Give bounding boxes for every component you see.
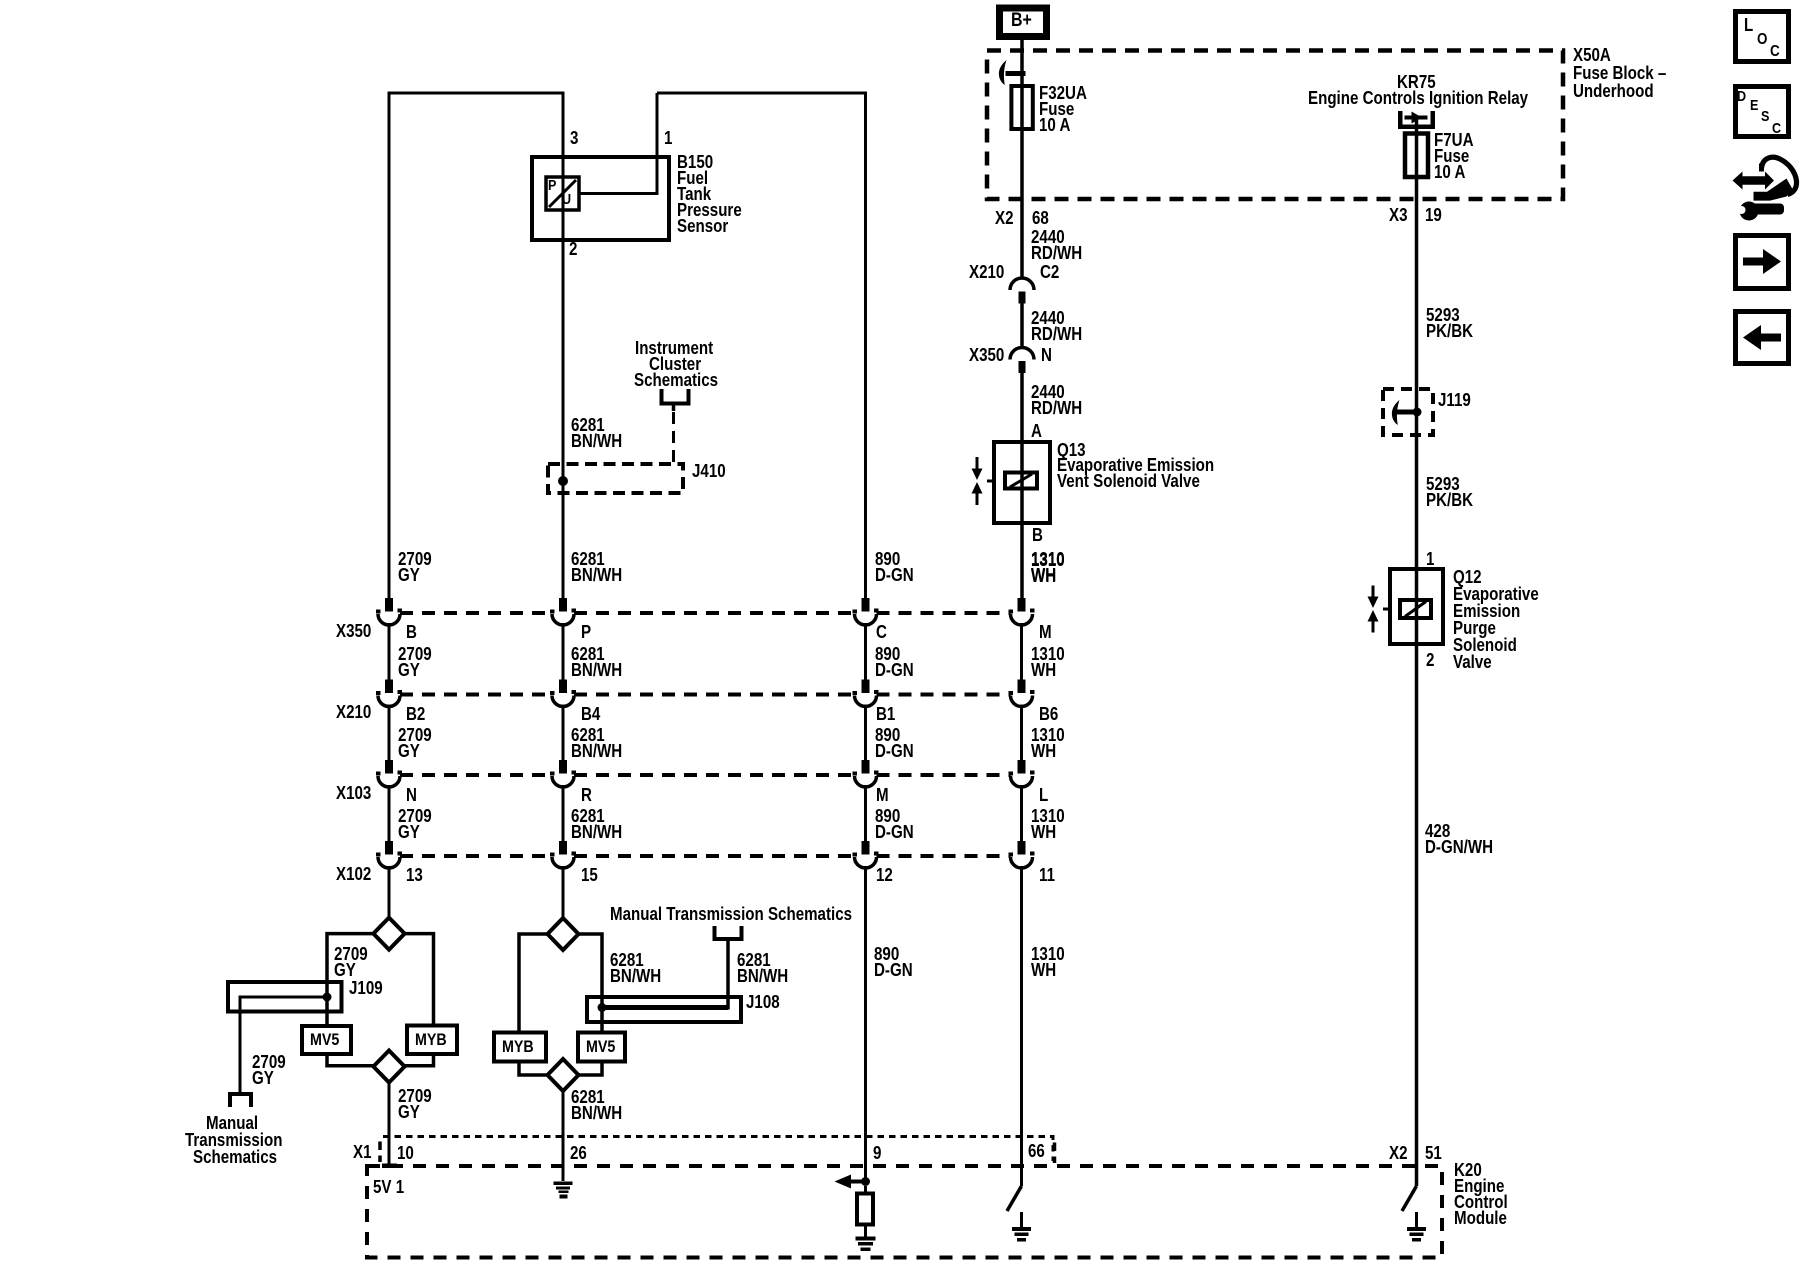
in-line connector X210 C2: [1010, 278, 1034, 290]
wire label 5293 PK/BK a: [1426, 307, 1473, 339]
wire 1310 WH column4 to ECM pin 66: [1020, 866, 1023, 1186]
wire 2709 GY column1 vertical: [388, 92, 391, 599]
internal switch at pin X2 51: [1402, 1186, 1417, 1211]
junction dot pin 9: [861, 1177, 870, 1186]
pin B label: [1032, 527, 1043, 543]
wire 890 D-GN column3 to ECM pin 9: [864, 866, 867, 1178]
connector X2 ecm label: [1389, 1145, 1408, 1161]
J119 label: [1438, 392, 1471, 408]
row connector X102 pin 12: [862, 841, 870, 855]
X350 N connector label: [969, 347, 1004, 363]
feed arrow at B+: [1006, 71, 1026, 76]
wire label 890 D-GN mid: [874, 946, 913, 978]
wire label set3: [571, 808, 622, 840]
evaporative emission purge solenoid valve Q12 box: [1390, 569, 1443, 644]
wire label 5293 PK/BK b: [1426, 476, 1473, 508]
wire label set1: [571, 646, 622, 678]
feed arrow at J119: [1395, 410, 1421, 415]
wire label 6281 BN/WH: [571, 417, 622, 449]
DESC letter E: [1750, 98, 1758, 114]
connector X3 label: [1389, 207, 1408, 223]
pin B1 label row: [876, 706, 895, 722]
LOC letter C: [1770, 44, 1780, 60]
B150 P/U transducer symbol: [546, 177, 579, 210]
pin 15 label row: [581, 867, 598, 883]
pin 1 label: [664, 130, 672, 146]
wire J109 tap 2709 GY: [240, 997, 327, 1092]
connector row X210 dashed line: [400, 693, 1011, 697]
internal resistor at pin 9: [857, 1194, 873, 1225]
DESC letter D: [1737, 89, 1746, 105]
P letter in P/U symbol: [548, 178, 556, 194]
pin P label row: [581, 624, 591, 640]
relay KR75 contact symbol: [1398, 111, 1403, 129]
wire label 1310 WH top: [1031, 552, 1065, 584]
fuel tank pressure sensor B150 box: [532, 157, 669, 240]
wire 2709 GY to ECM pin 10: [388, 1083, 391, 1165]
instrument cluster label line2: [649, 356, 701, 372]
dashed wire to J410: [672, 412, 675, 464]
wire B150 pin1 top horizontal to column3: [657, 92, 866, 95]
pin 19 label: [1425, 207, 1442, 223]
row X350 label: [336, 623, 371, 639]
row connector X210 pin B2: [385, 680, 393, 694]
pin B label row: [406, 624, 417, 640]
instrument cluster bracket: [662, 389, 689, 404]
pin 3 label: [570, 130, 578, 146]
wire 2440 RD/WH C2 to X350 N: [1020, 304, 1024, 348]
pin M label row: [1039, 624, 1052, 640]
Q13 name line1: [1057, 457, 1214, 473]
J109 label: [349, 980, 383, 996]
J410 label: [692, 463, 726, 479]
KR75 name label: [1308, 90, 1528, 106]
row connector X350 pin B: [385, 598, 393, 612]
row connector X102 pin 13: [385, 841, 393, 855]
pin 1 label Q12: [1426, 551, 1434, 567]
wire 890 D-GN column3 segment: [864, 623, 867, 680]
wire label set1: [875, 646, 914, 678]
row connector X350 pin P: [559, 598, 567, 612]
splice diamond bottom structure1: [373, 1051, 404, 1083]
LOC letter O: [1757, 32, 1767, 48]
wire 890 D-GN column3 segment: [864, 785, 867, 841]
wire label 2709 GY s1 left: [252, 1054, 286, 1086]
B+ label: [1011, 13, 1032, 29]
in-line connector X350 N: [1010, 348, 1034, 360]
X210 C2 connector label: [969, 264, 1004, 280]
wire structure2 left branch lower: [519, 1062, 548, 1076]
pin 66 label: [1028, 1143, 1045, 1159]
F7UA label: [1434, 132, 1473, 180]
Q12 valve port stub: [1383, 608, 1390, 611]
row connector X103 pin M: [862, 760, 870, 774]
wire 2440 RD/WH fuse to X210 C2: [1020, 86, 1024, 278]
row X103 label: [336, 785, 371, 801]
connector code MYB box structure1: [407, 1026, 457, 1055]
junction dot J109: [323, 993, 332, 1002]
wire structure1 right branch 2709 GY: [405, 934, 434, 1026]
pin 51 label: [1425, 1145, 1442, 1161]
B150 label: [677, 154, 742, 234]
pin 13 label row: [406, 867, 423, 883]
icon box LOC: [1736, 12, 1789, 62]
wire label set2: [1031, 727, 1065, 759]
wire label 6281 s2 right: [737, 952, 788, 984]
Q12 label: [1453, 569, 1539, 671]
icon box right arrow: [1736, 236, 1789, 289]
connector row X102 dashed line: [400, 854, 1011, 858]
instrument cluster label line3: [634, 372, 718, 388]
evaporative emission vent solenoid valve Q13 box: [994, 442, 1050, 523]
U letter in P/U symbol: [562, 192, 571, 208]
connector X2 label: [995, 210, 1014, 226]
wire 890 D-GN column3 vertical: [864, 92, 867, 599]
row connector X103 pin L: [1018, 760, 1026, 774]
wire label 2709 GY s1 top: [334, 946, 368, 978]
wire 6281 BN/WH column2 segment: [562, 705, 565, 761]
pin C2 label: [1040, 264, 1059, 280]
MYB text s2: [502, 1039, 534, 1055]
wire 1310 WH column4 segment: [1020, 705, 1023, 761]
splice J119 dashed box: [1383, 389, 1433, 435]
wire label set1: [398, 646, 432, 678]
splice pack J109 box: [228, 982, 342, 1012]
LOC letter L: [1744, 17, 1753, 33]
F32UA label: [1039, 85, 1087, 133]
manual trans label left line3: [193, 1149, 277, 1165]
ground at pin X2 51: [1415, 1212, 1418, 1227]
MYB text s1: [415, 1032, 447, 1048]
DESC letter C2: [1772, 121, 1781, 137]
DESC letter S: [1761, 109, 1769, 125]
MV5 text s2: [586, 1039, 615, 1055]
splice diamond top structure1: [373, 918, 404, 950]
manual trans label left line1: [206, 1115, 258, 1131]
pin N label: [1041, 347, 1052, 363]
pin 11 label row: [1039, 867, 1055, 883]
wire 2709 GY column1 segment: [388, 785, 391, 841]
wire 890 D-GN column3 segment: [864, 705, 867, 761]
wire label set2: [398, 727, 432, 759]
connector code MYB box structure2: [494, 1033, 546, 1062]
Q13 valve port stub: [987, 480, 994, 483]
pin B2 label row: [406, 706, 425, 722]
pin 9 label: [873, 1145, 881, 1161]
wire KR75 to fuse F7UA: [1415, 119, 1419, 134]
Q13 name line2: [1057, 473, 1200, 489]
wire 2440 RD/WH N to Q13: [1020, 373, 1024, 598]
instrument cluster label line1: [635, 340, 713, 356]
wire label set0: [398, 551, 432, 583]
terminal bar at pin 10: [382, 1164, 397, 1169]
row connector X350 pin C: [862, 598, 870, 612]
wire label set3: [398, 808, 432, 840]
wire label 2709 GY s1 bottom: [398, 1088, 432, 1120]
wire structure2 left branch 6281 BN/WH: [519, 934, 548, 1033]
fuse block underhood X50A dashed box: [987, 51, 1563, 200]
row connector X210 pin B6: [1018, 680, 1026, 694]
wire 6281 BN/WH column2 segment: [562, 623, 565, 680]
wire label 6281 s2 bottom: [571, 1089, 622, 1121]
pin R label row: [581, 787, 592, 803]
wire label set3: [875, 808, 914, 840]
row connector X210 pin B1: [862, 680, 870, 694]
wire label 428 D-GN/WH: [1425, 823, 1493, 855]
5V 1 label: [373, 1179, 404, 1195]
row X210 label: [336, 704, 371, 720]
wire label 6281 s2 left: [610, 952, 661, 984]
wire column1 X102 to splice diamond: [388, 866, 391, 918]
connector code MV5 box structure1: [302, 1026, 351, 1054]
internal switch at pin 66: [1007, 1186, 1022, 1211]
pin B4 label row: [581, 706, 600, 722]
pin 2 label Q12: [1426, 652, 1434, 668]
icon box DESC: [1736, 87, 1789, 137]
manual trans label left line2: [185, 1132, 282, 1148]
icon wrench and arrows: [1733, 157, 1797, 220]
wire label set3: [1031, 808, 1065, 840]
pin 10 label: [397, 1145, 414, 1161]
splice pack J410 dashed box: [548, 464, 683, 493]
pin M label row: [876, 787, 889, 803]
MV5 text s1: [310, 1032, 339, 1048]
wire B150 pin3 top horizontal to column1: [389, 92, 563, 95]
wire label 1310 WH mid: [1031, 946, 1065, 978]
ground at pin 9: [856, 1237, 876, 1241]
wire 6281 BN/WH to ECM pin 26 ground: [562, 1091, 565, 1181]
pin 26 label: [570, 1145, 587, 1161]
wire label set2: [571, 727, 622, 759]
row connector X103 pin R: [559, 760, 567, 774]
wire 6281 BN/WH column2 segment: [562, 785, 565, 841]
Q12 valve arrows: [1372, 586, 1375, 598]
wire 2709 GY column1 segment: [388, 705, 391, 761]
wire column2 X102 to splice diamond: [562, 866, 565, 918]
wire structure1 right branch lower: [405, 1054, 434, 1066]
Q12 solenoid coil: [1400, 600, 1431, 618]
J108 label: [746, 994, 780, 1010]
K20 label: [1454, 1162, 1508, 1226]
wire B+ feed to fuse F32UA: [1020, 40, 1024, 86]
X1 label divider dashes: [378, 1142, 382, 1163]
wire label set2: [875, 727, 914, 759]
KR75 label: [1397, 74, 1436, 90]
manual trans label right: [610, 906, 852, 922]
wire label set0: [571, 551, 622, 583]
junction dot J119: [1413, 408, 1422, 417]
wire 5293 PK/BK column5 vertical: [1415, 134, 1419, 1187]
pin A label: [1031, 423, 1042, 439]
wire label set0: [1031, 551, 1065, 583]
junction dot J108: [598, 1003, 607, 1012]
pin 68 label: [1032, 210, 1049, 226]
row connector X102 pin 11: [1018, 841, 1026, 855]
wire label set1: [1031, 646, 1065, 678]
pin C label row: [876, 624, 887, 640]
wire label 2440 RD/WH c: [1031, 384, 1082, 416]
pin B6 label row: [1039, 706, 1058, 722]
off-page bracket manual transmission right: [715, 926, 742, 939]
wire J108 tap 6281 BN/WH: [602, 1005, 728, 1010]
wire structure1 left branch lower: [327, 1054, 373, 1066]
Q13 solenoid coil: [1005, 473, 1037, 489]
wire 6281 BN/WH column2 vertical through sensor and J410: [562, 92, 565, 599]
row connector X210 pin B4: [559, 680, 567, 694]
B150 internal wire pin1 to P/U: [579, 93, 657, 194]
connector X1 label: [353, 1144, 372, 1160]
icon box left arrow: [1736, 312, 1789, 364]
fuse F7UA 10A: [1405, 134, 1428, 178]
wire 1310 WH column4 segment: [1020, 623, 1023, 680]
battery positive terminal B+: [1000, 8, 1047, 37]
wire label 2440 RD/WH a: [1031, 229, 1082, 261]
ground at pin 66: [1020, 1212, 1023, 1227]
ground at pin 26: [554, 1182, 573, 1186]
wire label set0: [875, 551, 914, 583]
pin N label row: [406, 787, 417, 803]
wire 1310 WH column4 segment: [1020, 785, 1023, 841]
Q13 label: [1057, 442, 1086, 458]
splice diamond top structure2: [548, 918, 579, 950]
splice pack J108 box: [587, 997, 741, 1022]
row connector X102 pin 15: [559, 841, 567, 855]
connector code MV5 box structure2: [578, 1033, 625, 1062]
wire 2709 GY column1 segment: [388, 623, 391, 680]
connector row X103 dashed line: [400, 773, 1011, 777]
pin 66 label divider dashes: [1053, 1143, 1057, 1164]
row X102 label: [336, 866, 371, 882]
splice diamond bottom structure2: [548, 1059, 579, 1091]
row connector X350 pin M: [1018, 598, 1026, 612]
row connector X103 pin N: [385, 760, 393, 774]
connector row X350 dashed line: [400, 611, 1011, 615]
pin L label row: [1039, 787, 1048, 803]
wire structure1 left branch 2709 GY: [327, 934, 373, 1026]
off-page bracket manual transmission left: [230, 1094, 251, 1107]
X50A label: [1573, 46, 1666, 100]
internal arrow at pin 9: [851, 1180, 866, 1184]
wire label 2440 RD/WH b: [1031, 310, 1082, 342]
fuse F32UA 10A: [1011, 86, 1032, 129]
ECM X1 connector dotted line: [383, 1137, 1053, 1162]
engine control module K20 dashed box: [367, 1166, 1442, 1258]
wire structure2 right branch 6281 BN/WH: [579, 934, 603, 1033]
junction dot J410: [558, 476, 568, 486]
pin 12 label row: [876, 867, 893, 883]
Q13 valve arrows: [976, 457, 979, 469]
wire structure2 right branch lower: [579, 1062, 603, 1076]
pin 2 label: [569, 241, 577, 257]
